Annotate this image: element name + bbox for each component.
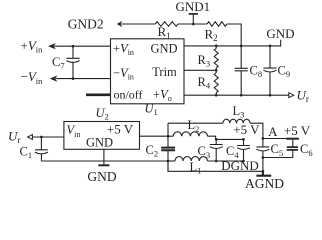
U1 pin +Vo label <box>153 88 172 104</box>
label node +Vin <box>21 38 44 55</box>
label Ur right <box>297 88 309 105</box>
svg-text:R4: R4 <box>198 75 211 91</box>
label GND bottom <box>87 169 116 184</box>
label +5V analog <box>284 123 311 138</box>
wire top branch <box>168 122 223 124</box>
inductor L1 <box>168 157 244 176</box>
svg-text:GND: GND <box>266 26 294 41</box>
label U1 <box>145 102 158 118</box>
svg-text:GND1: GND1 <box>175 0 210 14</box>
wire Trim <box>184 69 216 71</box>
svg-text:C3: C3 <box>198 144 211 160</box>
svg-text:Ur: Ur <box>297 88 309 105</box>
label DGND <box>221 158 259 173</box>
label U2 <box>96 106 109 122</box>
inductor L2 <box>168 118 216 139</box>
svg-text:C9: C9 <box>278 63 291 79</box>
capacitor C9 <box>263 45 290 97</box>
svg-text:A: A <box>268 124 278 139</box>
svg-text:C7: C7 <box>52 55 65 71</box>
resistor R3 <box>198 45 219 72</box>
resistor R2 <box>205 22 227 43</box>
svg-text:−Vin: −Vin <box>21 69 44 86</box>
svg-text:GND: GND <box>150 41 177 55</box>
wire U2 +5V out <box>140 135 169 137</box>
wire node A <box>263 138 293 140</box>
wire on/off stub <box>86 94 111 97</box>
capacitor C3 <box>198 138 223 162</box>
svg-text:C6: C6 <box>300 142 313 158</box>
label GND2 <box>68 17 104 32</box>
svg-text:R3: R3 <box>198 53 211 69</box>
wire AGND rail <box>168 161 263 171</box>
svg-text:−Vin: −Vin <box>113 66 134 82</box>
wire +Vin <box>49 44 111 49</box>
svg-text:R2: R2 <box>205 27 218 44</box>
ground AGND <box>256 170 271 176</box>
svg-text:L2: L2 <box>188 118 200 134</box>
svg-text:L1: L1 <box>190 160 202 176</box>
U2 pin GND label <box>86 136 113 150</box>
svg-text:C5: C5 <box>271 142 284 158</box>
U2 label +5V <box>107 121 134 136</box>
svg-text:U2: U2 <box>96 106 109 122</box>
U1 pin +Vin label <box>113 41 134 57</box>
svg-text:Trim: Trim <box>152 65 177 79</box>
capacitor C7 <box>52 45 80 80</box>
svg-text:GND: GND <box>86 136 113 150</box>
svg-text:C1: C1 <box>20 145 33 161</box>
capacitor C6 <box>263 139 313 158</box>
U1 pin Trim label <box>152 65 177 79</box>
IC U2 box <box>64 122 140 150</box>
svg-text:on/off: on/off <box>113 88 142 102</box>
wire U1 GND net <box>184 40 281 46</box>
capacitor C8 <box>235 45 262 97</box>
svg-text:GND: GND <box>87 169 116 184</box>
capacitor C2 <box>146 123 176 171</box>
wire GND rail left <box>41 160 168 162</box>
svg-text:+5 V: +5 V <box>107 121 134 136</box>
svg-text:C2: C2 <box>146 143 159 159</box>
svg-text:+Vo: +Vo <box>153 88 172 104</box>
svg-text:+Vin: +Vin <box>113 41 134 57</box>
label node A <box>268 124 278 139</box>
svg-text:Ur: Ur <box>8 129 20 146</box>
svg-text:+5 V: +5 V <box>233 122 260 137</box>
label Ur left <box>8 129 20 146</box>
label node -Vin <box>21 69 44 86</box>
ground GND1 <box>175 0 210 25</box>
resistor R4 <box>198 70 219 96</box>
label +5V digital <box>233 122 260 137</box>
U1 pin onoff label <box>113 88 142 102</box>
capacitor C4 <box>226 138 250 162</box>
svg-text:+5 V: +5 V <box>284 123 311 138</box>
U2 pin Vin label <box>67 123 81 139</box>
svg-text:+Vin: +Vin <box>21 38 44 55</box>
svg-text:Vin: Vin <box>67 123 81 139</box>
inductor L3 <box>223 104 263 139</box>
U1 pin GND label <box>150 41 177 55</box>
capacitor C1 <box>20 136 49 161</box>
wire -Vin <box>51 76 111 81</box>
svg-text:AGND: AGND <box>245 176 284 191</box>
capacitor C5 <box>256 137 283 171</box>
label GND right <box>266 26 294 41</box>
svg-text:GND2: GND2 <box>68 17 104 32</box>
IC U1 box <box>111 39 185 104</box>
svg-text:L3: L3 <box>233 104 245 120</box>
svg-text:C8: C8 <box>250 63 263 79</box>
wire +5V digital <box>216 138 244 140</box>
wire Ur input <box>28 135 64 140</box>
wire +Vo / Ur net <box>184 93 294 98</box>
svg-text:DGND: DGND <box>221 158 259 173</box>
ground GND of U2 <box>98 149 109 165</box>
wire GND2 net <box>117 22 241 46</box>
resistor R1 <box>155 22 178 41</box>
U1 pin -Vin label <box>113 66 134 82</box>
label AGND <box>245 176 284 191</box>
